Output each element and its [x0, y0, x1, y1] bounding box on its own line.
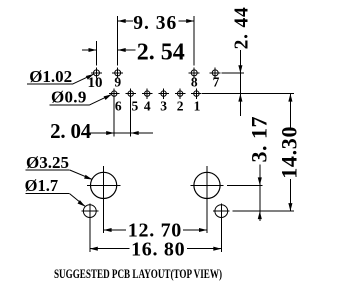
dimension 3.17 line [258, 165, 262, 222]
mounting hole H1 (3.25mm) [87, 166, 120, 233]
svg-text:16. 80: 16. 80 [131, 238, 185, 260]
pin 4 pad [142, 88, 152, 98]
svg-text:4: 4 [144, 98, 151, 113]
dimension 2.04 extension line pin5 column [130, 97, 132, 137]
svg-text:3. 17: 3. 17 [247, 116, 272, 163]
svg-text:SUGGESTED PCB LAYOUT(TOP VIEW): SUGGESTED PCB LAYOUT(TOP VIEW) [54, 267, 222, 281]
svg-text:9: 9 [114, 75, 121, 90]
svg-text:2. 44: 2. 44 [232, 6, 253, 49]
pin 2 pad [175, 88, 185, 98]
svg-text:8: 8 [191, 75, 198, 90]
pin 5 pad [126, 88, 136, 98]
pin 10 pad [91, 67, 102, 78]
pin 9 pad [112, 67, 123, 78]
dimension 12.70 line [104, 228, 207, 232]
dimension 2.04 extension line pin6 column [113, 97, 115, 137]
svg-text:2: 2 [177, 98, 184, 113]
svg-text:2. 04: 2. 04 [50, 119, 92, 143]
dimension 14.30 line [288, 94, 292, 212]
svg-text:Ø1.7: Ø1.7 [25, 176, 58, 195]
pin 3 pad [158, 88, 168, 98]
svg-text:7: 7 [213, 75, 220, 90]
pin 8 pad [189, 67, 200, 78]
leader dia 1.7 underline and arrow to hole H3 [25, 194, 85, 207]
leader dia 3.25 underline and arrow to hole H1 [25, 170, 92, 180]
mounting hole H2 (3.25mm) [191, 166, 224, 233]
svg-text:Ø0.9: Ø0.9 [51, 87, 87, 106]
svg-text:2. 54: 2. 54 [137, 39, 185, 65]
dimension 9.36 line [118, 19, 195, 23]
locating hole H4 (1.7mm) [213, 204, 230, 253]
hole H2 center extension line right [227, 184, 263, 186]
dimension 2.44 line [238, 50, 242, 116]
svg-text:14.30: 14.30 [277, 126, 302, 179]
dimension 2.54 extension line pin10 column [96, 41, 98, 66]
svg-text:9. 36: 9. 36 [133, 13, 177, 34]
pin1 extension line [202, 93, 294, 95]
dimension 9.36 extension line pin9 column [117, 16, 119, 66]
locating hole H3 (1.7mm) [82, 204, 99, 253]
pin7 extension line [222, 72, 245, 74]
svg-text:1: 1 [194, 98, 201, 113]
svg-text:3: 3 [160, 98, 167, 113]
svg-text:Ø1.02: Ø1.02 [29, 67, 72, 86]
dimension 16.80 line [90, 247, 222, 251]
pin 7 pad [210, 67, 221, 78]
svg-text:5: 5 [132, 98, 139, 113]
hole H4 center extension line right [232, 210, 293, 212]
svg-text:Ø3.25: Ø3.25 [26, 153, 69, 172]
leader dia 1.02 underline and arrow to pin 10 [27, 74, 94, 84]
leader dia 0.9 underline and arrow to pin 6 [50, 94, 112, 105]
dimension 9.36 extension line pin8 column [193, 16, 195, 66]
svg-text:6: 6 [115, 98, 122, 113]
dimension 2.54 line [82, 48, 136, 52]
pin 6 pad [109, 88, 119, 98]
pin 1 pad [191, 88, 201, 98]
dimension 2.04 line [89, 131, 153, 135]
